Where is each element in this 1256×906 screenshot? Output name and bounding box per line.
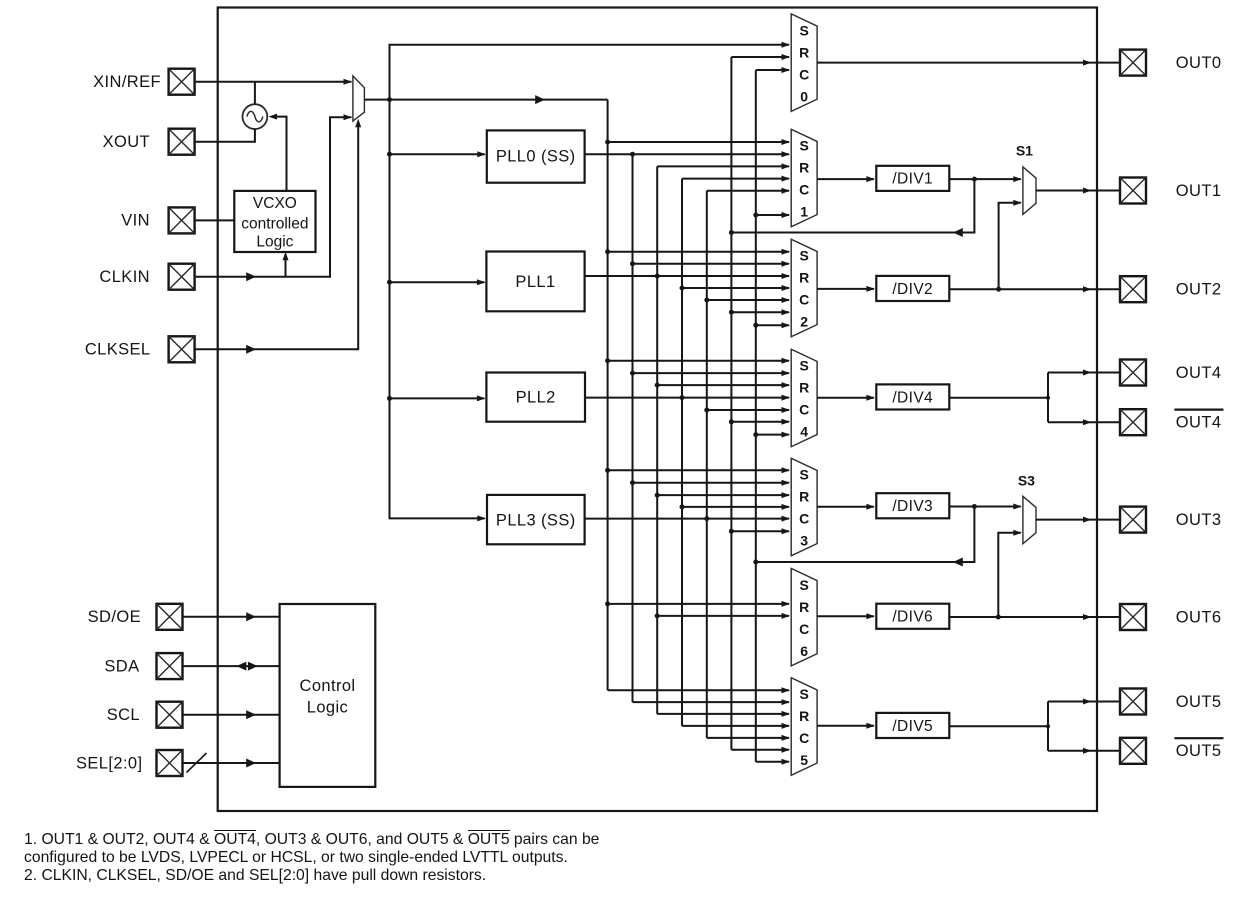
svg-text:PLL3 (SS): PLL3 (SS) <box>496 511 576 529</box>
bus PLL2 vertical <box>680 176 791 729</box>
pad OUT0 <box>1120 50 1146 76</box>
svg-text:VCXO: VCXO <box>253 195 297 212</box>
svg-text:C: C <box>799 621 809 637</box>
svg-text:R: R <box>799 489 809 505</box>
pad CLKSEL <box>169 336 195 362</box>
mux S1 <box>1023 167 1036 215</box>
wire PLL1 output to SRC2 <box>585 273 790 279</box>
wire CLKIN to mux M0 and VCXO <box>195 114 352 281</box>
pad OUT4# <box>1120 409 1146 435</box>
pad VIN <box>169 207 195 233</box>
svg-text:R: R <box>799 708 809 724</box>
VCXO controlled Logic block <box>234 191 315 252</box>
pad OUT5# <box>1120 738 1146 764</box>
wire S1 output to OUT1 <box>1036 188 1120 194</box>
wire SDA to Control Logic (bidirectional) <box>183 662 280 671</box>
svg-text:S: S <box>800 138 809 154</box>
svg-text:SCL: SCL <box>107 706 140 724</box>
svg-text:S: S <box>800 22 809 38</box>
svg-text:S1: S1 <box>1016 142 1033 158</box>
bus PLL1 vertical <box>655 163 790 717</box>
pad XOUT <box>169 129 195 155</box>
block PLL1 <box>486 252 584 312</box>
svg-text:R: R <box>799 160 809 176</box>
block PLL0 (SS) <box>487 130 585 182</box>
divider /DIV2 <box>876 276 949 301</box>
wire REF feed to PLL1 <box>387 279 485 285</box>
wire /DIV2 branch to S1 input 2 <box>996 200 1022 292</box>
svg-text:R: R <box>799 599 809 615</box>
wire /DIV6 output to OUT6 <box>949 614 1120 620</box>
wire PLL0 output to SRC1 <box>585 151 790 157</box>
wire REF feed to PLL0 <box>387 151 486 157</box>
wire PLL3 output to SRC3 <box>585 516 790 522</box>
wire VIN to VCXO <box>195 219 235 221</box>
svg-text:OUT2: OUT2 <box>1176 281 1222 299</box>
svg-text:/DIV4: /DIV4 <box>892 389 933 406</box>
svg-text:S: S <box>800 577 809 593</box>
svg-text:SDA: SDA <box>104 657 139 675</box>
svg-text:Logic: Logic <box>256 233 293 250</box>
wire SRC0 output to OUT0 <box>817 60 1120 66</box>
svg-text:OUT4: OUT4 <box>1176 414 1222 432</box>
svg-text:SEL[2:0]: SEL[2:0] <box>76 754 143 772</box>
bus PLL3 vertical <box>704 188 790 741</box>
wire SRC3 output to /DIV3 <box>817 504 875 510</box>
pad OUT4 <box>1120 360 1146 386</box>
svg-text:C: C <box>799 66 809 82</box>
mux SRC6 <box>791 568 817 666</box>
mux SRC3 <box>791 458 817 556</box>
mux SRC5 <box>791 678 817 776</box>
svg-text:/DIV1: /DIV1 <box>892 171 933 188</box>
bus DIV1 feedback vertical <box>729 54 790 753</box>
wire PLL2 output to SRC4 <box>585 395 790 401</box>
wire SEL[2:0] bus to Control Logic <box>183 753 280 773</box>
svg-text:/DIV6: /DIV6 <box>892 609 933 626</box>
pad SCL <box>157 702 183 728</box>
wire /DIV3 output to S3 <box>949 504 1021 510</box>
svg-text:0: 0 <box>800 88 808 104</box>
pad OUT2 <box>1120 276 1146 302</box>
wire mux M0 output (REF) <box>364 95 607 104</box>
svg-text:XIN/REF: XIN/REF <box>93 73 161 91</box>
pad XIN/REF <box>169 69 195 95</box>
Control Logic block <box>280 604 376 787</box>
svg-text:CLKIN: CLKIN <box>99 268 150 286</box>
svg-text:XOUT: XOUT <box>103 133 150 151</box>
bus PLL0 vertical <box>630 154 790 705</box>
svg-text:OUT5: OUT5 <box>1176 693 1222 711</box>
svg-text:SD/OE: SD/OE <box>88 608 141 626</box>
wire XOUT to oscillator <box>195 129 255 142</box>
svg-text:1: 1 <box>800 204 808 220</box>
svg-text:R: R <box>799 44 809 60</box>
wire REF to SRC0 input 1 <box>390 42 791 100</box>
pad OUT1 <box>1120 178 1146 204</box>
mux SRC0 <box>791 14 817 112</box>
wire S3 output to OUT3 <box>1036 517 1120 523</box>
svg-text:PLL1: PLL1 <box>515 273 555 291</box>
pad CLKIN <box>169 264 195 290</box>
mux SRC2 <box>791 239 817 336</box>
bus DIV3 feedback vertical <box>753 67 790 765</box>
pad SD/OE <box>157 604 183 630</box>
block PLL3 (SS) <box>487 495 585 544</box>
block PLL2 <box>486 373 585 422</box>
pad SDA <box>157 653 183 679</box>
svg-text:OUT6: OUT6 <box>1176 608 1222 626</box>
divider /DIV3 <box>876 493 949 518</box>
divider /DIV1 <box>876 166 949 191</box>
mux SRC4 <box>791 349 817 447</box>
svg-text:/DIV3: /DIV3 <box>892 498 933 515</box>
wire /DIV6 branch to S3 input 2 <box>996 530 1022 620</box>
wire XIN/REF to mux M0 <box>195 79 352 105</box>
wire /DIV1 output to S1 <box>949 176 1021 182</box>
svg-text:R: R <box>799 380 809 396</box>
svg-text:OUT5: OUT5 <box>1176 742 1222 760</box>
svg-text:R: R <box>799 270 809 286</box>
pad OUT6 <box>1120 604 1146 630</box>
pad SEL[2:0] <box>157 750 183 776</box>
svg-text:Control: Control <box>300 677 356 695</box>
wire CLKSEL to mux M0 select <box>195 119 362 354</box>
oscillator Y1 <box>243 104 268 129</box>
wire /DIV2 output to OUT2 <box>949 286 1120 292</box>
wire REF feed to PLL2 <box>387 395 485 401</box>
mux S3 <box>1023 496 1036 544</box>
wire SRC6 output to /DIV6 <box>817 613 875 619</box>
mux SRC1 <box>791 129 817 227</box>
svg-text:3: 3 <box>800 533 808 549</box>
wire /DIV1 feedback to bus <box>729 179 975 237</box>
bus REF (mux output) vertical <box>605 100 790 694</box>
divider /DIV4 <box>876 384 949 409</box>
svg-text:6: 6 <box>800 643 808 659</box>
wire VCXO to oscillator <box>269 114 287 191</box>
wire SCL to Control Logic <box>183 710 280 719</box>
wire SRC1 output to /DIV1 <box>817 176 875 182</box>
wire SRC5 output to /DIV5 <box>817 723 875 729</box>
svg-text:VIN: VIN <box>121 212 150 230</box>
pad OUT3 <box>1120 507 1146 533</box>
input reference mux M0 <box>353 76 365 121</box>
svg-text:OUT3: OUT3 <box>1176 511 1222 529</box>
svg-text:4: 4 <box>800 424 808 440</box>
pad OUT5 <box>1120 689 1146 715</box>
wire REF feed to PLL3 <box>390 100 486 522</box>
svg-text:PLL2: PLL2 <box>516 389 556 407</box>
svg-text:C: C <box>799 730 809 746</box>
chip boundary U1 <box>218 8 1097 812</box>
svg-text:C: C <box>799 402 809 418</box>
svg-text:C: C <box>799 511 809 527</box>
svg-text:/DIV5: /DIV5 <box>892 718 933 735</box>
svg-text:OUT0: OUT0 <box>1176 54 1222 72</box>
svg-text:S: S <box>800 686 809 702</box>
wire /DIV3 feedback to bus <box>753 507 974 567</box>
svg-text:OUT4: OUT4 <box>1176 364 1222 382</box>
wire SRC4 output to /DIV4 <box>817 395 875 401</box>
svg-text:5: 5 <box>800 752 808 768</box>
svg-text:S3: S3 <box>1018 472 1035 488</box>
svg-text:CLKSEL: CLKSEL <box>85 341 151 359</box>
wire SRC2 output to /DIV2 <box>817 286 875 292</box>
wire SD/OE to Control Logic <box>183 612 280 621</box>
svg-text:OUT1: OUT1 <box>1176 182 1222 200</box>
svg-text:S: S <box>800 358 809 374</box>
wire /DIV5 output splitter to OUT5 pair <box>949 699 1120 754</box>
svg-text:S: S <box>800 248 809 264</box>
svg-text:controlled: controlled <box>241 216 308 233</box>
svg-text:C: C <box>799 182 809 198</box>
svg-text:S: S <box>800 467 809 483</box>
svg-text:PLL0 (SS): PLL0 (SS) <box>496 148 576 166</box>
divider /DIV5 <box>876 713 949 738</box>
divider /DIV6 <box>876 604 949 629</box>
svg-text:2: 2 <box>800 314 808 330</box>
svg-text:C: C <box>799 292 809 308</box>
svg-text:/DIV2: /DIV2 <box>892 281 933 298</box>
wire /DIV4 output splitter to OUT4 pair <box>949 370 1120 426</box>
svg-text:Logic: Logic <box>307 699 348 717</box>
